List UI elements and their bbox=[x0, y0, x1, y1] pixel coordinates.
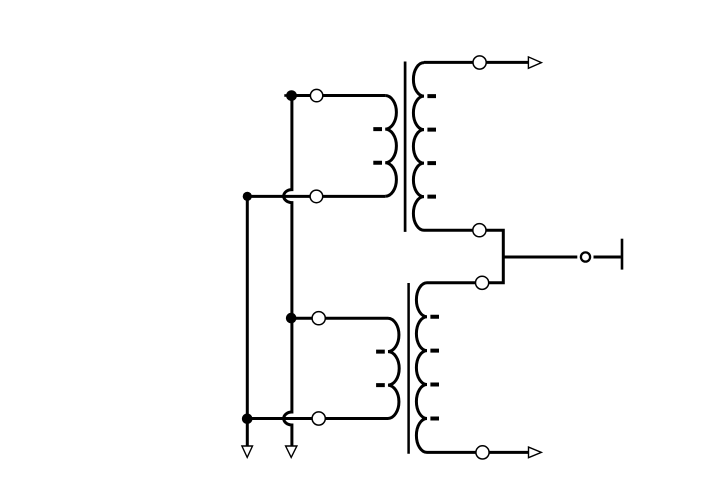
center tap end bar terminal bbox=[621, 239, 624, 270]
arrow out T1 secondary top bbox=[528, 57, 541, 68]
terminal circle T1 secondary bottom bbox=[473, 224, 486, 237]
terminal circle T2 secondary bottom bbox=[476, 446, 489, 459]
transformer T1 primary winding ticks bbox=[373, 129, 382, 163]
junction dot left bus / T2 primary bottom bbox=[242, 414, 253, 425]
transformer T2 secondary winding ticks bbox=[430, 317, 439, 419]
junction dot left bus / T1 primary bottom bbox=[243, 192, 252, 201]
wire T2 primary top lead bbox=[292, 317, 388, 320]
arrow down left bus bbox=[242, 446, 253, 457]
wire T1 secondary bottom lead joining center tap bbox=[424, 230, 503, 283]
terminal circle T2 primary top bbox=[312, 312, 325, 325]
wire T1 primary top lead bbox=[292, 94, 385, 97]
transformer T2 secondary winding (5 turns) bbox=[416, 283, 427, 453]
transformer T2 primary winding ticks bbox=[376, 352, 385, 385]
terminal circle T2 primary bottom bbox=[312, 412, 325, 425]
wire left vertical bus bbox=[246, 196, 249, 446]
wire T2 secondary bottom output lead bbox=[427, 451, 528, 454]
terminal circle T1 primary bottom bbox=[310, 190, 323, 203]
transformer T1 primary winding (3 turns) bbox=[385, 96, 396, 197]
transformer T1 secondary winding ticks bbox=[427, 96, 436, 197]
transformer T2 primary winding (3 turns) bbox=[388, 318, 399, 418]
terminal circle T1 primary top bbox=[310, 89, 322, 101]
transformer T1 secondary winding (5 turns) bbox=[413, 63, 424, 231]
center tap small terminal circle bbox=[581, 252, 590, 261]
wire right vertical bus with hops over horizontal wires bbox=[284, 96, 292, 447]
terminal circle T2 secondary top bbox=[476, 276, 489, 289]
wire center tap output bbox=[503, 256, 621, 259]
wire T1 secondary top output lead bbox=[424, 61, 528, 64]
wire T2 primary bottom lead bbox=[247, 417, 388, 420]
terminal circle T1 secondary top bbox=[473, 56, 486, 69]
arrow out T2 secondary bottom bbox=[529, 447, 542, 458]
junction dot right bus / T2 primary top bbox=[286, 313, 297, 324]
wire T1 primary bottom lead bbox=[247, 195, 385, 198]
arrow down right bus bbox=[286, 446, 297, 457]
junction dot top of right bus bbox=[284, 94, 291, 97]
transformer T2 core bar bbox=[407, 283, 410, 454]
transformer T1 core bar bbox=[404, 62, 407, 232]
